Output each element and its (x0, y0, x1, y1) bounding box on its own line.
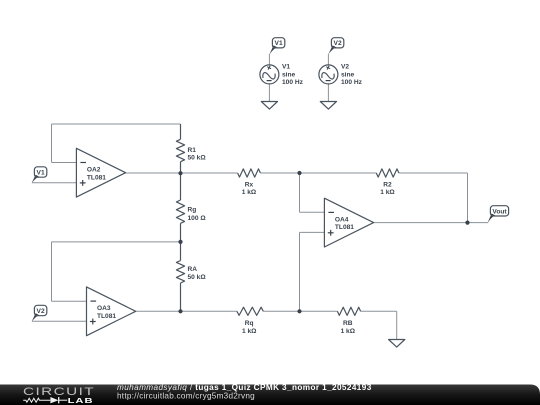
svg-text:1 kΩ: 1 kΩ (242, 189, 257, 196)
svg-text:OA3: OA3 (97, 305, 111, 312)
svg-text:100 Hz: 100 Hz (341, 79, 363, 86)
svg-text:Rq: Rq (245, 320, 254, 327)
svg-text:V2: V2 (341, 63, 349, 70)
svg-text:RA: RA (188, 266, 198, 273)
svg-text:V1: V1 (275, 40, 283, 47)
svg-text:http://circuitlab.com/cryg5m3d: http://circuitlab.com/cryg5m3d2rvng (117, 391, 255, 400)
svg-text:sine: sine (341, 71, 355, 78)
svg-text:V2: V2 (37, 308, 45, 315)
svg-text:100 Hz: 100 Hz (282, 79, 304, 86)
svg-text:R2: R2 (383, 181, 392, 188)
svg-text:R1: R1 (188, 147, 197, 154)
svg-text:1 kΩ: 1 kΩ (341, 328, 356, 335)
svg-text:1 kΩ: 1 kΩ (380, 189, 395, 196)
svg-text:OA2: OA2 (87, 167, 101, 174)
svg-text:V1: V1 (37, 169, 45, 176)
svg-text:TL081: TL081 (97, 313, 116, 320)
svg-text:V1: V1 (282, 63, 290, 70)
svg-text:50 kΩ: 50 kΩ (188, 155, 207, 162)
svg-text:RB: RB (343, 320, 353, 327)
svg-text:LAB: LAB (68, 396, 94, 405)
svg-text:TL081: TL081 (335, 224, 354, 231)
svg-text:100 Ω: 100 Ω (188, 215, 207, 222)
svg-text:Rg: Rg (188, 207, 197, 214)
svg-text:50 kΩ: 50 kΩ (188, 274, 207, 281)
svg-text:TL081: TL081 (87, 174, 106, 181)
svg-text:sine: sine (282, 71, 296, 78)
svg-text:Rx: Rx (245, 181, 254, 188)
svg-text:V2: V2 (334, 40, 342, 47)
svg-text:1 kΩ: 1 kΩ (242, 328, 257, 335)
svg-text:Vout: Vout (492, 208, 507, 215)
svg-text:OA4: OA4 (335, 216, 349, 223)
